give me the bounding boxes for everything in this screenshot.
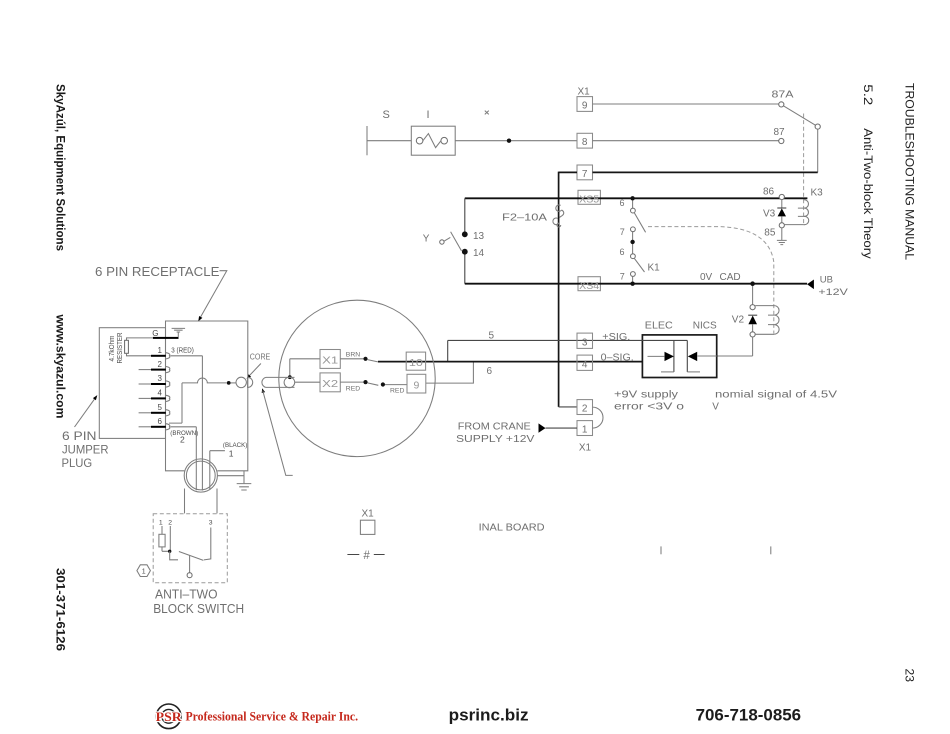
balloon 1 hexagon — [137, 565, 151, 577]
core leader line — [250, 364, 261, 376]
pin 2 lead — [139, 369, 151, 371]
svg-text:X1: X1 — [361, 509, 374, 520]
svg-text:SkyAzúl, Equipment Solutions: SkyAzúl, Equipment Solutions — [53, 84, 67, 251]
svg-text:PLUG: PLUG — [62, 456, 93, 470]
svg-text:6: 6 — [487, 366, 493, 377]
switch Y linkage — [444, 237, 450, 241]
cable to ATB switch left — [184, 489, 186, 514]
signal rail 0-SIG thick — [378, 361, 642, 363]
wire bus to X1:7 — [559, 171, 577, 173]
wire 5 — [448, 339, 643, 341]
diode V2 — [748, 316, 757, 325]
tick mark right — [770, 546, 772, 554]
svg-text:7: 7 — [620, 272, 625, 282]
svg-text:10: 10 — [409, 357, 423, 369]
pin 6 contact — [166, 424, 170, 430]
relay coil terminal 86 — [779, 194, 784, 199]
pin 2 bar — [151, 369, 166, 371]
terminal X1:2 — [577, 400, 593, 415]
svg-text:V3: V3 — [763, 209, 776, 220]
ATB actuator roller — [187, 573, 192, 578]
terminal X1:3 — [577, 333, 593, 348]
diode V3 stem top — [781, 200, 783, 208]
wire common contact down to node 7 line — [817, 129, 819, 172]
svg-text:ANTI–TWO: ANTI–TWO — [155, 587, 218, 602]
svg-text:nomial signal of 4.5V: nomial signal of 4.5V — [715, 390, 837, 401]
svg-text:F2–10A: F2–10A — [502, 212, 547, 223]
svg-text:14: 14 — [473, 248, 485, 259]
svg-text:5: 5 — [489, 331, 495, 342]
gap leader arrowhead — [262, 388, 265, 393]
svg-text:SUPPLY +12V: SUPPLY +12V — [456, 433, 535, 445]
spare terminal box — [360, 520, 375, 534]
node V2 branch — [750, 281, 755, 286]
node XS5 — [578, 190, 600, 204]
jumper plug leader — [75, 399, 95, 427]
svg-text:RED: RED — [390, 387, 404, 394]
node XS4 — [578, 277, 600, 291]
svg-text:S: S — [383, 109, 390, 121]
diode V3 stem bottom — [781, 216, 783, 222]
wire node to plug — [231, 382, 236, 384]
svg-text:XS5: XS5 — [579, 194, 599, 205]
legend wire number dashes — [347, 554, 384, 556]
contact K1 7 upper — [631, 227, 636, 232]
svg-text:NICS: NICS — [693, 321, 717, 332]
pin 1 bar — [151, 355, 166, 357]
relay K2 coil terminal bottom — [750, 332, 755, 337]
ATB resistor lead — [161, 526, 163, 534]
receptacle leader arrowhead — [198, 316, 202, 321]
diode V3 — [778, 208, 786, 216]
svg-text:7: 7 — [582, 169, 588, 180]
ATB node — [168, 550, 171, 553]
ATB terminal 3 wire — [204, 528, 211, 560]
wire X1 to brush — [340, 358, 363, 360]
resistor 4.7kOhm — [125, 340, 129, 353]
diode V2 stem — [752, 324, 754, 332]
svg-text:5.2: 5.2 — [861, 84, 875, 105]
cable gland inner — [186, 461, 215, 490]
terminal X1:9 — [577, 97, 593, 112]
wire brush to terminal 10/9 — [385, 384, 407, 386]
node slip ring top — [288, 375, 292, 379]
diode D1 foot — [661, 371, 674, 373]
svg-text:3 (RED): 3 (RED) — [171, 348, 194, 355]
gap leader line — [263, 391, 293, 476]
svg-text:BLOCK SWITCH: BLOCK SWITCH — [153, 601, 244, 616]
diode D2 — [688, 352, 697, 361]
pin 5 contact — [166, 410, 170, 416]
socket barrel bottom — [266, 386, 295, 388]
terminal X1:7 — [577, 165, 593, 180]
svg-text:UB: UB — [820, 275, 833, 286]
svg-text:23: 23 — [903, 669, 917, 683]
terminal X1:8 — [577, 133, 593, 148]
pin 4 bar — [151, 397, 166, 399]
svg-text:INAL BOARD: INAL BOARD — [479, 523, 545, 534]
svg-text:error <3V o: error <3V o — [614, 401, 685, 412]
svg-text:2: 2 — [180, 434, 185, 444]
wire pin6 to core junction — [169, 378, 227, 423]
svg-text:PSR: PSR — [156, 710, 183, 724]
relay K3 common contact — [815, 124, 820, 129]
relay K3 switch arm — [784, 106, 816, 125]
svg-text:#: # — [363, 550, 370, 562]
relay coil terminal 85 — [779, 223, 784, 228]
relay K2 coil top stub — [755, 305, 774, 307]
wire junction to contact 6 — [632, 200, 634, 208]
crane supply arrow — [539, 423, 546, 432]
svg-text:V2: V2 — [732, 315, 745, 326]
pin 4 contact — [166, 395, 170, 401]
red wire down — [171, 356, 203, 491]
switch Y contact 14 — [462, 249, 468, 255]
wire contact 7 to mid junction — [632, 232, 634, 254]
svg-text:6 PIN: 6 PIN — [62, 429, 97, 443]
plug contact circle — [236, 377, 246, 387]
black wire — [210, 451, 225, 489]
reel terminal 9 — [407, 374, 426, 393]
pin 2 contact — [166, 367, 170, 373]
svg-text:BRN: BRN — [346, 352, 360, 359]
relay K3 actuating dashed link — [803, 114, 805, 225]
svg-text:psrinc.biz: psrinc.biz — [449, 706, 529, 725]
node K1 mid junction — [630, 240, 634, 244]
relay K3 contact 87 — [779, 138, 784, 143]
cable to ATB switch right — [216, 489, 218, 514]
svg-text:+12V: +12V — [818, 287, 848, 298]
svg-text:www.skyazul.com: www.skyazul.com — [54, 313, 68, 418]
fuse S1 element — [423, 134, 441, 148]
ATB resistor — [159, 534, 165, 547]
node RED wire — [381, 382, 385, 386]
svg-text:G: G — [152, 329, 158, 338]
slip ring contact — [284, 377, 295, 388]
wire left column top — [464, 198, 466, 231]
cable reel — [279, 300, 435, 456]
wire X1:9 to relay contact 87A — [593, 103, 779, 105]
pin 6 lead — [139, 426, 151, 428]
electronics +SIG rail — [642, 339, 687, 341]
ATB switch blade — [179, 552, 204, 561]
jumper plug leader arrowhead — [93, 395, 97, 400]
fuse S1 box — [411, 126, 455, 155]
node K1 top junction — [630, 196, 634, 200]
switch Y blade — [451, 232, 462, 251]
wire crane supply to X1:1 — [546, 427, 578, 429]
svg-text:9: 9 — [413, 379, 419, 391]
ground wire from gland — [217, 471, 244, 484]
diode D1 cathode bar — [673, 340, 675, 372]
node on XS4 line — [630, 282, 634, 286]
svg-text:Y: Y — [423, 233, 430, 244]
footer PSR logo — [156, 704, 183, 729]
svg-text:6 PIN RECEPTACLE: 6 PIN RECEPTACLE — [95, 264, 220, 279]
svg-text:+9V supply: +9V supply — [614, 390, 678, 401]
pin 3 contact — [166, 381, 170, 387]
svg-text:6: 6 — [620, 198, 625, 208]
wire 5 drop to 0V rail — [447, 340, 449, 361]
diode D2 foot — [687, 371, 700, 373]
pin 3 lead — [139, 383, 151, 385]
svg-text:CAD: CAD — [720, 272, 741, 283]
svg-text:TROUBLESHOOTING MANUAL: TROUBLESHOOTING MANUAL — [903, 83, 917, 260]
svg-text:1: 1 — [158, 346, 163, 355]
jumper plug box — [99, 328, 165, 439]
ATB switch dashed enclosure — [153, 514, 227, 583]
socket contact arc — [262, 377, 266, 387]
contact K1 arm upper — [634, 213, 645, 233]
svg-text:Anti-Two-block Theory: Anti-Two-block Theory — [861, 128, 875, 259]
svg-text:0V: 0V — [700, 272, 713, 283]
svg-text:JUMPER: JUMPER — [62, 443, 109, 457]
fuse F2-10A symbol — [553, 205, 564, 227]
svg-text:RESISTER: RESISTER — [117, 333, 124, 364]
socket barrel top — [266, 376, 295, 378]
pin G bar — [153, 337, 179, 339]
node brush RED — [363, 380, 367, 384]
svg-text:3: 3 — [209, 519, 213, 526]
wire stub to fuse S1 — [367, 140, 411, 142]
ATB resistor bottom lead — [162, 547, 170, 551]
diode D1 anode wire — [648, 355, 665, 357]
diode D2 cathode bar — [686, 340, 688, 372]
supply arrow UB — [807, 280, 814, 290]
svg-text:1: 1 — [582, 425, 588, 436]
fuse S1 left contact — [416, 137, 423, 144]
vertical supply bus — [558, 172, 560, 407]
svg-text:3: 3 — [158, 374, 163, 383]
pin 5 bar — [151, 412, 166, 414]
wire 6 — [426, 363, 474, 384]
wire electronics output to V2 — [717, 337, 753, 356]
pin 3 bar — [151, 383, 166, 385]
cable gland outer — [184, 459, 217, 492]
wire left column bottom — [464, 255, 466, 284]
svg-text:RED: RED — [346, 386, 360, 393]
reel terminal X2 — [320, 373, 340, 392]
svg-text:706-718-0856: 706-718-0856 — [696, 706, 802, 725]
reel terminal X1 — [320, 350, 340, 369]
resistor wire top — [127, 338, 153, 340]
relay K2 coil bottom stub — [755, 333, 774, 335]
svg-text:I: I — [427, 109, 430, 121]
resistor wire bottom — [127, 353, 152, 356]
electronics module box — [642, 335, 716, 378]
svg-text:4: 4 — [582, 359, 588, 370]
svg-text:1: 1 — [159, 519, 163, 526]
svg-text:1: 1 — [142, 568, 146, 575]
ground at receptacle top — [172, 328, 186, 337]
svg-text:X2: X2 — [322, 378, 338, 390]
node core junction — [227, 381, 231, 385]
receptacle leader — [200, 271, 227, 319]
receptacle box — [166, 321, 248, 471]
fuse S1 right contact — [441, 137, 448, 144]
svg-text:K3: K3 — [811, 188, 824, 199]
terminal X1:1 — [577, 421, 593, 436]
svg-text:6: 6 — [158, 417, 163, 426]
tick mark left — [660, 546, 662, 554]
pin 6 bar — [151, 426, 166, 428]
svg-text:CORE: CORE — [250, 352, 271, 362]
relay K1 dashed actuating link — [648, 227, 774, 334]
contact K1 7 lower — [631, 272, 636, 277]
relay coil K3 — [798, 200, 809, 225]
svg-text:6: 6 — [620, 247, 625, 257]
svg-text:4: 4 — [158, 389, 163, 398]
wire fuse to X1:8 — [455, 140, 577, 142]
pin 5 lead — [139, 412, 151, 414]
svg-text:86: 86 — [763, 187, 775, 198]
ATB contact stub — [170, 551, 178, 560]
svg-text:X1: X1 — [579, 443, 592, 454]
brush arm RED — [368, 383, 379, 385]
ground at receptacle bottom — [237, 484, 252, 490]
supply terminal stub — [366, 126, 368, 155]
svg-text:X1: X1 — [578, 87, 591, 98]
svg-text:Professional Service & Repair: Professional Service & Repair Inc. — [186, 710, 359, 724]
contact K1 arm lower — [634, 258, 644, 272]
relay K2 coil — [768, 306, 779, 335]
svg-text:8: 8 — [582, 137, 588, 148]
bus line XS5 — [465, 197, 808, 199]
jumper loop terminals 2-1 — [593, 407, 604, 428]
plug contact half disc — [248, 377, 253, 387]
svg-text:X1: X1 — [322, 355, 338, 367]
wire contact to bottom line — [632, 276, 634, 281]
svg-text:K1: K1 — [648, 263, 661, 274]
pin 1 contact — [166, 353, 170, 359]
svg-text:1: 1 — [229, 448, 234, 458]
wire X1:7 to relay common — [593, 171, 818, 173]
svg-text:85: 85 — [764, 228, 776, 239]
terminal X1:4 — [577, 355, 593, 370]
svg-text:2: 2 — [168, 519, 172, 526]
contact K1 6 lower — [631, 254, 636, 259]
switch Y contact 13 — [462, 231, 468, 237]
wire coil bottom to terminal 85 — [784, 224, 803, 226]
relay K3 contact 87A — [779, 102, 784, 107]
svg-text:9: 9 — [582, 100, 588, 111]
diode D2 anode wire — [697, 355, 717, 357]
svg-text:4.7kOhm: 4.7kOhm — [109, 335, 116, 361]
brown wire down — [171, 427, 197, 491]
diode D1 — [665, 352, 674, 361]
relay K2 coil terminal top — [750, 305, 755, 310]
wire X2 to slip ring — [295, 381, 320, 383]
contact K1 6 upper — [631, 208, 636, 213]
diode V3 cathode bar — [777, 207, 786, 209]
brush arm BRN — [368, 360, 378, 362]
svg-text:87: 87 — [774, 127, 786, 138]
svg-text:2: 2 — [582, 404, 588, 415]
ATB actuator stem — [189, 556, 191, 573]
pin 4 lead — [139, 397, 151, 399]
wire bus to terminal X1:2 — [559, 406, 577, 408]
svg-text:V: V — [712, 401, 719, 412]
svg-text:(BLACK): (BLACK) — [223, 442, 247, 449]
core leader arrowhead — [247, 374, 252, 379]
switch Y pivot — [440, 240, 444, 244]
reel slip ring X1 wire — [290, 359, 320, 376]
reel terminal 10 — [406, 352, 425, 370]
asterisk mark — [485, 111, 489, 115]
wire 85 to ground — [781, 228, 783, 240]
svg-text:2: 2 — [158, 360, 163, 369]
diode V2 cathode bar — [748, 314, 757, 316]
svg-text:7: 7 — [620, 227, 625, 237]
svg-text:5: 5 — [158, 403, 163, 412]
svg-text:301-371-6126: 301-371-6126 — [54, 568, 68, 651]
svg-text:87A: 87A — [772, 90, 794, 101]
svg-text:13: 13 — [473, 231, 485, 242]
junction node on wire 8 — [507, 139, 511, 143]
wire node to V2 — [752, 286, 754, 305]
svg-text:FROM CRANE: FROM CRANE — [458, 420, 531, 432]
wire X2 to brush — [340, 381, 363, 383]
svg-text:3: 3 — [582, 337, 588, 348]
ATB terminal 2 wire — [169, 526, 171, 551]
wire X1:8 to relay contact 87 — [593, 140, 779, 142]
svg-text:+SIG.: +SIG. — [602, 332, 630, 343]
ground at K3 — [777, 240, 787, 244]
node brush BRN — [363, 357, 367, 361]
svg-text:ELEC: ELEC — [645, 321, 673, 332]
svg-text:XS4: XS4 — [579, 281, 599, 292]
bus line XS4 — [465, 283, 807, 285]
